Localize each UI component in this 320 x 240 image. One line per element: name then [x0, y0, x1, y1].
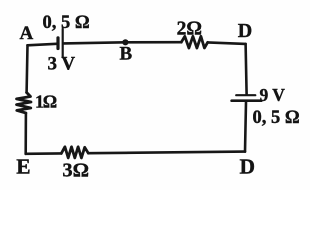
svg-text:0, 5 Ω: 0, 5 Ω: [253, 108, 300, 128]
svg-text:D: D: [238, 20, 252, 42]
svg-text:0, 5 Ω: 0, 5 Ω: [43, 13, 90, 33]
wire node E up to resistor R1: [24, 113, 27, 154]
svg-text:3 V: 3 V: [48, 53, 76, 74]
svg-text:1Ω: 1Ω: [35, 91, 57, 111]
node B junction dot: [122, 39, 128, 45]
svg-text:B: B: [120, 44, 133, 65]
wire resistor R2 to node D top: [208, 42, 246, 44]
svg-text:3Ω: 3Ω: [62, 160, 89, 182]
resistor R1 (1 ohm) vertical zigzag: [17, 93, 32, 114]
svg-text:D: D: [240, 155, 256, 179]
svg-text:9 V: 9 V: [260, 85, 286, 105]
battery B1 short plate (3 V cell): [56, 38, 59, 49]
svg-text:A: A: [20, 23, 34, 44]
wire node D bottom to resistor R3: [88, 152, 245, 154]
wire A to battery B1 left plate: [28, 44, 57, 46]
svg-text:E: E: [16, 154, 30, 178]
svg-text:2Ω: 2Ω: [177, 19, 202, 40]
battery B1 long plate: [62, 29, 64, 57]
wire resistor R1 to node A: [25, 45, 28, 92]
wire resistor R3 to node E: [26, 152, 62, 155]
wire battery B2 to node D bottom: [245, 102, 246, 152]
battery B2 long plate: [232, 99, 262, 102]
resistor R2 (2 ohm) zigzag: [181, 36, 207, 48]
resistor R3 (3 ohm) zigzag: [61, 147, 88, 158]
wire battery B1 to resistor R2: [64, 42, 181, 43]
battery B2 short plate (9 V cell): [236, 94, 255, 96]
wire node D down to battery B2: [246, 44, 247, 94]
